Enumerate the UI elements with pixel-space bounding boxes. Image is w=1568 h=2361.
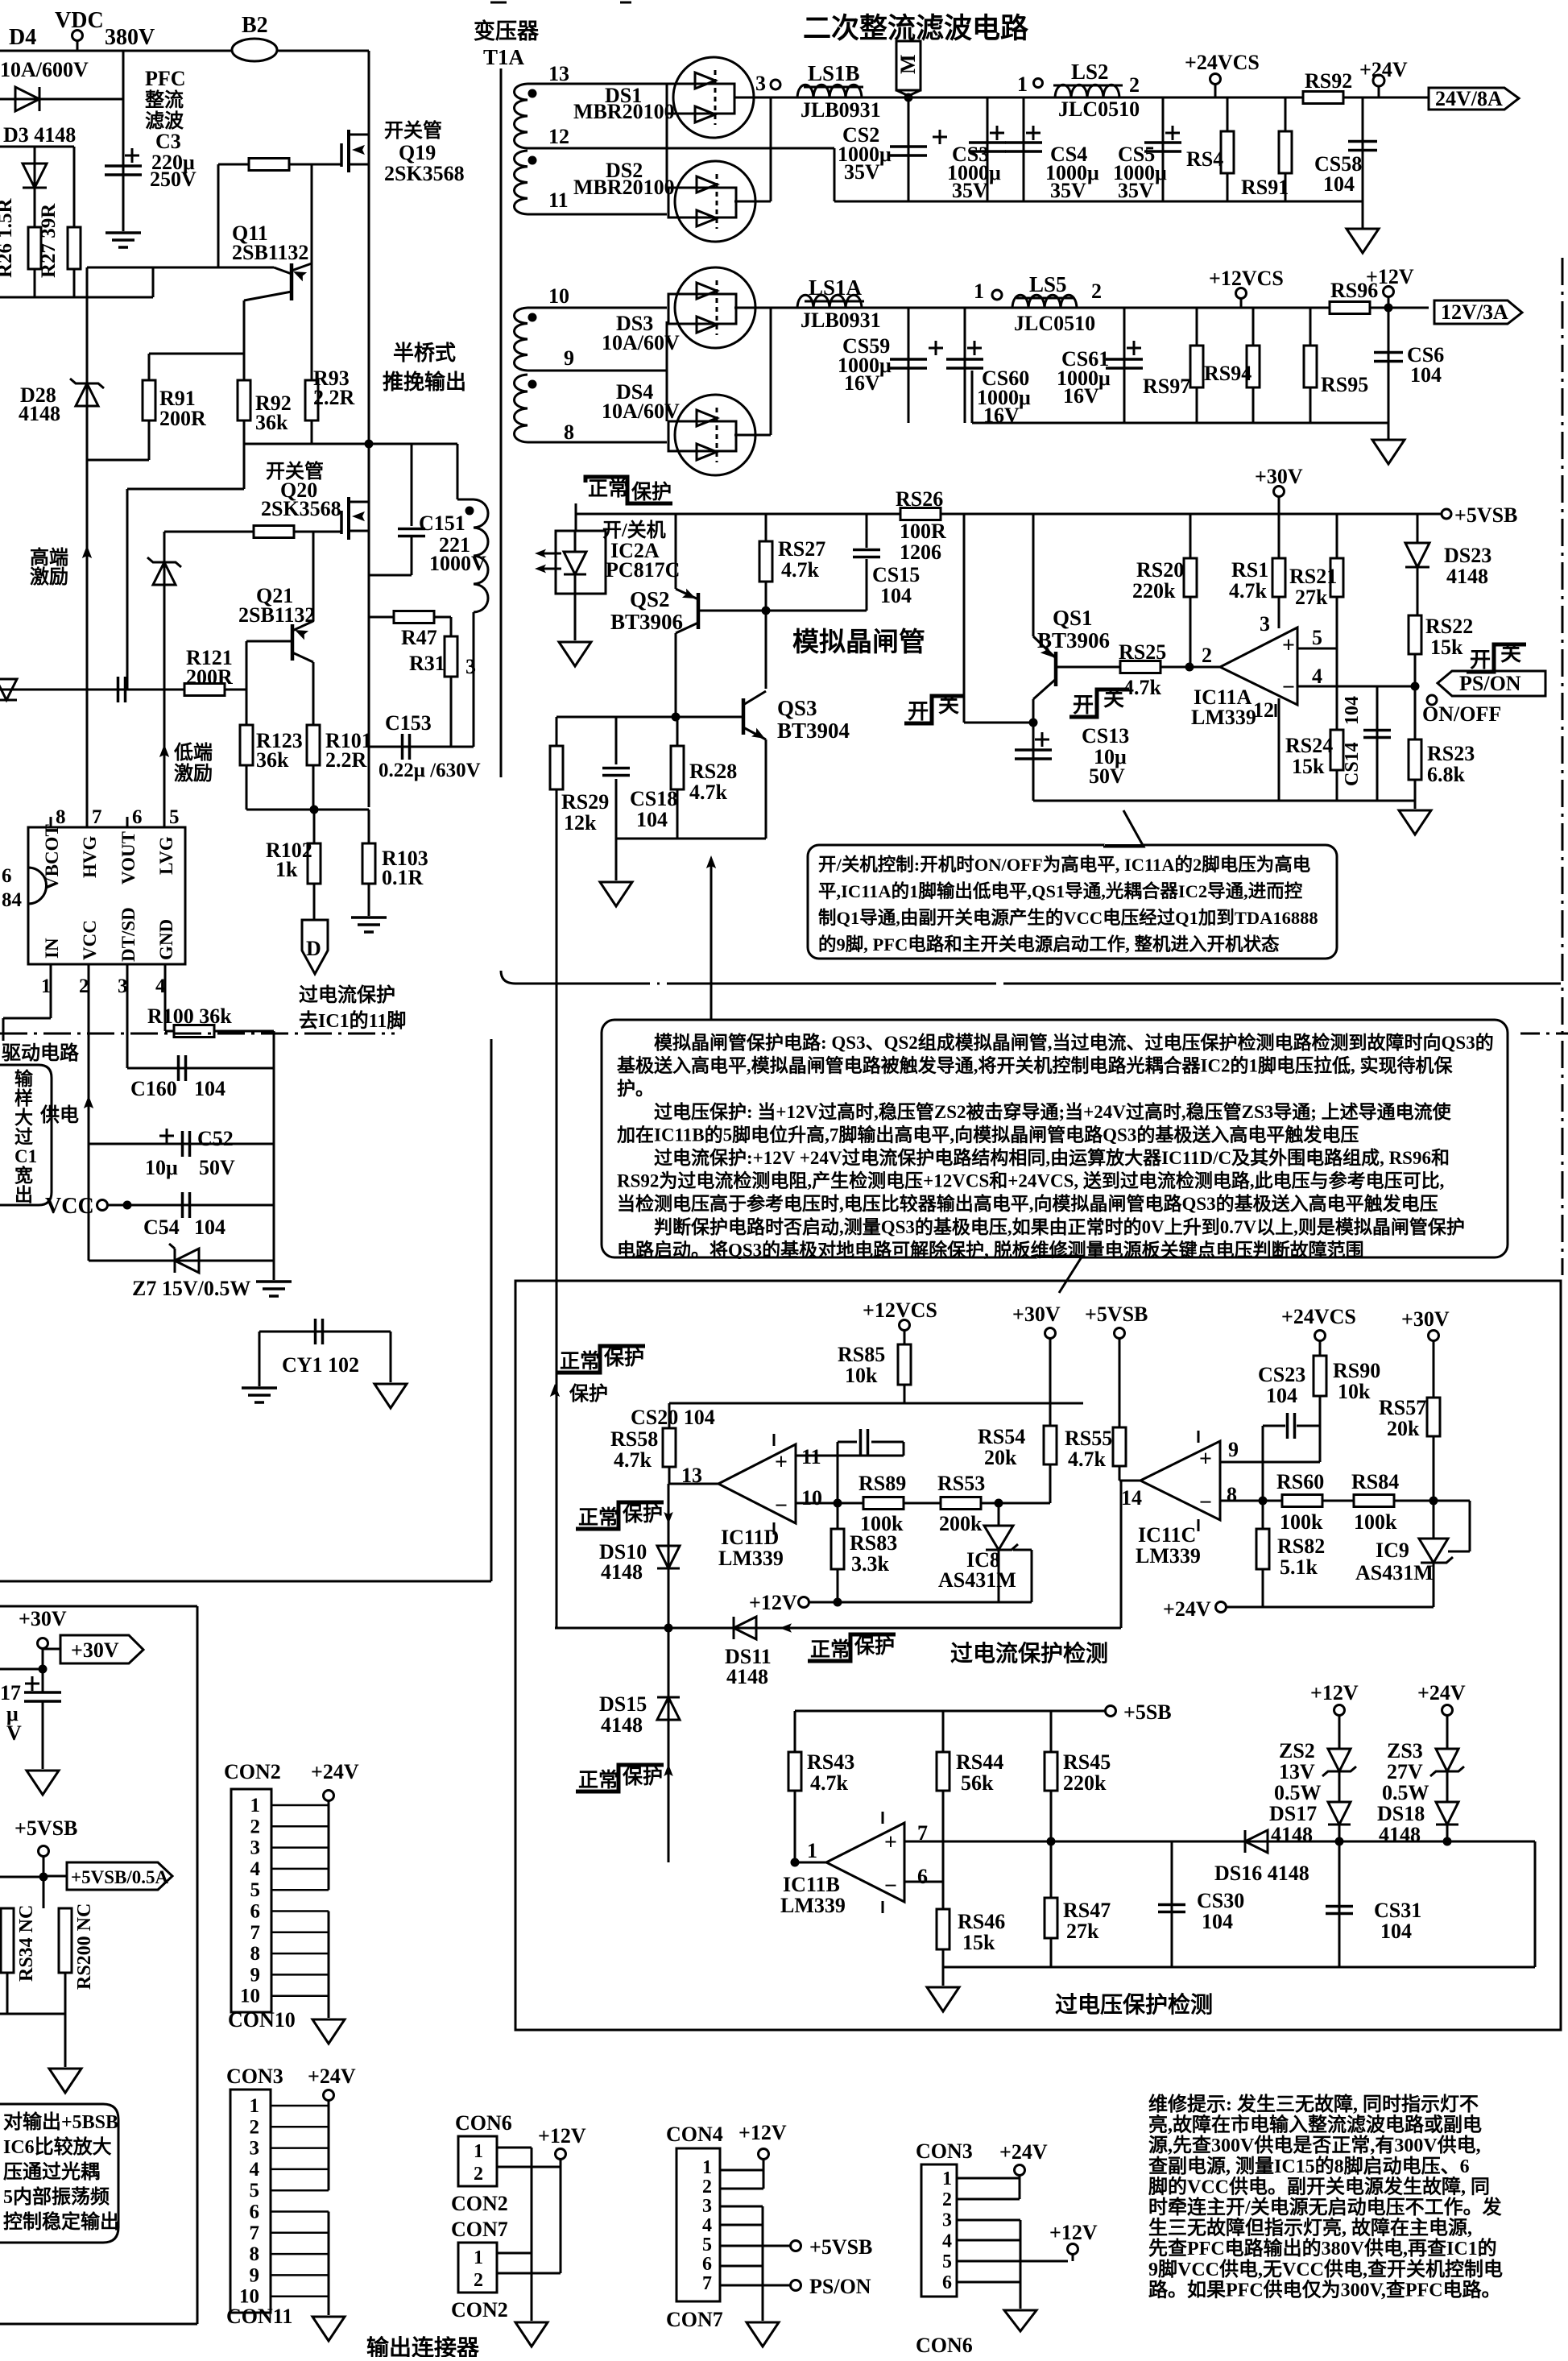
wire VCC row [108, 1204, 274, 1207]
svg-text:对输出+5BSB: 对输出+5BSB [3, 2110, 118, 2133]
wire RS29 branch [556, 717, 558, 746]
ground CON4 [747, 2322, 779, 2347]
svg-text:5: 5 [702, 2235, 712, 2255]
svg-text:C52: C52 [197, 1127, 234, 1150]
wire RS23 bottom [1414, 780, 1417, 801]
node +5VSB terminal [1442, 509, 1451, 519]
svg-text:1: 1 [1017, 72, 1028, 96]
svg-text:RS4: RS4 [1186, 147, 1223, 171]
capacitor CS5 [1144, 141, 1181, 144]
svg-text:2: 2 [1202, 644, 1212, 667]
arrow opto light 2 [538, 568, 561, 570]
svg-text:CS31: CS31 [1374, 1899, 1421, 1922]
wire RS bottoms [0, 2013, 65, 2015]
svg-text:+24V: +24V [1163, 1597, 1211, 1621]
svg-text:14: 14 [1121, 1486, 1142, 1510]
node +12VCS terminal IC11D [900, 1320, 910, 1331]
svg-text:12: 12 [1253, 698, 1274, 722]
tick IC11A bottom [1275, 704, 1277, 717]
inductor LS2 coil [1055, 85, 1119, 97]
svg-text:4.7k: 4.7k [689, 781, 728, 804]
svg-text:9: 9 [250, 2264, 260, 2286]
svg-text:Q19: Q19 [399, 141, 436, 164]
arrow 高端激励 [82, 545, 92, 558]
winding 9-8 [515, 375, 528, 442]
wire RS20 branch [1189, 514, 1192, 558]
svg-text:CON11: CON11 [226, 2305, 292, 2328]
node VCC terminal [97, 1200, 108, 1211]
wire QS1 base RS25 to IC11A pin2 [1056, 666, 1220, 669]
wire ground stub sub [64, 2014, 67, 2067]
svg-text:激励: 激励 [174, 762, 213, 785]
svg-text:输出连接器: 输出连接器 [366, 2334, 480, 2357]
resistor RS94 [1247, 346, 1260, 387]
svg-text:ON/OFF: ON/OFF [1422, 702, 1501, 726]
bootstrap wire y856 [0, 689, 164, 691]
svg-text:9: 9 [250, 1964, 261, 1986]
pin tick top 8 [50, 817, 52, 827]
wire CS3 branch [987, 97, 989, 201]
wire DS1 output [734, 97, 755, 99]
svg-text:20k: 20k [984, 1446, 1017, 1469]
wire RS29 CS18 RS28 top rail [556, 716, 676, 719]
svg-text:LM339: LM339 [780, 1894, 846, 1917]
node +12V terminal D [799, 1597, 809, 1608]
svg-text:PS/ON: PS/ON [809, 2275, 871, 2298]
svg-text:RS200 NC: RS200 NC [74, 1903, 95, 1990]
node PS/ON CON4 [791, 2280, 801, 2291]
wire CON2 +24V vertical [328, 1801, 330, 1890]
transformer T1A primary winding [457, 499, 474, 501]
resistor RS1 [1272, 558, 1285, 597]
svg-text:RS28: RS28 [689, 760, 737, 783]
node terminal 3 [771, 80, 780, 89]
wire R26 R27 bottom [34, 269, 36, 297]
svg-text:16V: 16V [1063, 384, 1099, 408]
svg-text:模拟晶闸管保护电路: QS3、QS2组成模拟晶闸管,当过电流: 模拟晶闸管保护电路: QS3、QS2组成模拟晶闸管,当过电流、过电压保护检测电路… [617, 1032, 1494, 1053]
svg-text:RS84: RS84 [1351, 1470, 1399, 1493]
wire R103 to ground [368, 884, 370, 916]
resistor RS95 [1304, 346, 1317, 387]
comparator IC11C LM339 [1140, 1441, 1220, 1520]
svg-text:2: 2 [1129, 73, 1140, 97]
capacitor bootstrap [117, 677, 120, 702]
node RS82 junction [1259, 1497, 1268, 1506]
wire pin2 column [88, 964, 90, 1261]
svg-text:RS92为过电流检测电阻,产生检测电压+12VCS和+24V: RS92为过电流检测电阻,产生检测电压+12VCS和+24VCS, 送到过电流检… [617, 1170, 1444, 1191]
ground C17 [27, 1771, 59, 1795]
transistor QS1 BT3906 [1054, 652, 1058, 686]
svg-text:CON7: CON7 [666, 2308, 723, 2331]
svg-text:15k: 15k [1292, 755, 1325, 778]
rectifier DS4 10A/60V [675, 395, 755, 475]
svg-text:样: 样 [14, 1087, 33, 1108]
svg-text:RS23: RS23 [1427, 742, 1475, 765]
wire CON2 gnd vertical [328, 1912, 330, 2019]
wire RS47 bottom [1050, 1938, 1053, 1967]
plus CS4 [1026, 132, 1041, 135]
svg-text:C153: C153 [385, 711, 432, 735]
wire ground stub B [942, 1967, 945, 1986]
block outline left bottom [490, 1039, 493, 1581]
svg-text:RS91: RS91 [1241, 176, 1289, 199]
wire pin7 [904, 1841, 1535, 1843]
svg-text:10k: 10k [1338, 1380, 1371, 1403]
svg-text:DS18: DS18 [1377, 1802, 1425, 1825]
wire RS26 down branch [963, 514, 966, 723]
svg-text:+24V: +24V [308, 2065, 356, 2088]
wire CS60 branch [964, 308, 966, 423]
svg-text:过: 过 [14, 1127, 33, 1147]
pin tick top 5 [163, 817, 166, 827]
wire DS3 lower input [666, 321, 668, 371]
capacitor C3 plates [105, 164, 142, 168]
diode DS16 [1245, 1830, 1268, 1853]
svg-text:27V: 27V [1387, 1760, 1423, 1783]
svg-text:开: 开 [1470, 648, 1491, 672]
svg-text:0.1R: 0.1R [382, 866, 424, 889]
wire terminal 10 [527, 307, 667, 309]
capacitor CS14 [1363, 729, 1391, 732]
svg-text:4148: 4148 [19, 402, 60, 425]
svg-text:4.7k: 4.7k [810, 1771, 849, 1795]
diode D4 [15, 87, 39, 111]
wire IC9 to rail [1433, 1601, 1435, 1607]
svg-text:激励: 激励 [30, 565, 68, 588]
node terminal 1 row2 [992, 290, 1002, 300]
svg-text:200k: 200k [939, 1512, 983, 1535]
svg-text:正常: 正常 [810, 1638, 850, 1661]
node +12V CON3r [1068, 2244, 1078, 2255]
resistor RS26 [900, 508, 941, 520]
svg-text:路。如果PFC供电仅为300V,查PFC电路。: 路。如果PFC供电仅为300V,查PFC电路。 [1148, 2278, 1501, 2301]
resistor R123 body [240, 725, 253, 765]
wire RS90 bottom [1319, 1396, 1322, 1462]
svg-text:CON3: CON3 [226, 2065, 283, 2088]
wire RS58 bottom [668, 1467, 671, 1484]
svg-text:RS90: RS90 [1333, 1359, 1380, 1382]
svg-text:+30V: +30V [19, 1607, 67, 1630]
svg-text:10: 10 [801, 1486, 822, 1510]
svg-text:JLB0931: JLB0931 [801, 98, 881, 122]
svg-text:维修提示: 发生三无故障, 同时指示灯不: 维修提示: 发生三无故障, 同时指示灯不 [1148, 2093, 1479, 2115]
node +24V terminal B [1442, 1705, 1453, 1716]
wire DS2 to rail [770, 97, 772, 201]
svg-text:104: 104 [1380, 1920, 1412, 1943]
wire trigger line vertical [556, 789, 558, 1628]
wire DS2 output [734, 201, 771, 203]
wire QS2 base [698, 610, 766, 612]
svg-text:7: 7 [250, 2222, 260, 2244]
callout tail up [1103, 810, 1144, 847]
node +5VSB CON4 [791, 2241, 801, 2251]
node RS45 pin7 [1047, 1837, 1056, 1846]
resistor RS46 [937, 1909, 949, 1949]
arrow 保护 up [550, 1384, 560, 1397]
capacitor C160 [177, 1055, 180, 1081]
resistor R103 [362, 843, 375, 884]
resistor RS57 [1427, 1398, 1440, 1436]
resistor RS60 [1282, 1495, 1322, 1507]
node RS57 junction [1429, 1497, 1438, 1506]
node R102 junction [310, 806, 319, 814]
wires CON2 pins [271, 1804, 329, 1807]
svg-text:4148: 4148 [1379, 1823, 1421, 1846]
ground x340 [256, 1280, 292, 1283]
wire R31 vertical [450, 617, 453, 747]
svg-text:RS95: RS95 [1321, 373, 1368, 396]
svg-text:加在IC11B的5脚电位升高,7脚输出高电平,向模拟晶闸管电: 加在IC11B的5脚电位升高,7脚输出高电平,向模拟晶闸管电路QS3的基极送入高… [616, 1124, 1359, 1145]
wire RS85 bottom [904, 1385, 906, 1403]
plus CS61 [1127, 347, 1141, 350]
svg-text:+: + [1282, 633, 1295, 658]
resistor Q20 gate [254, 526, 294, 538]
svg-text:PFC: PFC [145, 67, 186, 90]
svg-text:MBR20100: MBR20100 [573, 176, 675, 199]
wire CS59 branch [908, 308, 910, 423]
wire opto LED top [574, 531, 577, 552]
svg-text:AS431M: AS431M [938, 1568, 1016, 1592]
svg-text:开/关机控制:开机时ON/OFF为高电平, IC11A的2: 开/关机控制:开机时ON/OFF为高电平, IC11A的2脚电压为高电 [818, 854, 1311, 875]
svg-text:RS54: RS54 [978, 1425, 1025, 1448]
wire Q21 base [246, 640, 292, 643]
capacitor C151 [398, 528, 425, 531]
wire R91 bottom to pin7 column [148, 420, 151, 460]
svg-text:2: 2 [250, 2116, 260, 2138]
wire +5VSB row [0, 1876, 43, 1878]
svg-text:1: 1 [250, 1795, 261, 1816]
svg-text:C151: C151 [419, 512, 465, 535]
wire Q21 collector down [312, 662, 315, 725]
wire R103 branch [368, 810, 370, 843]
wire Z7 row [89, 1260, 274, 1262]
capacitor C151 branch [411, 444, 413, 526]
svg-text:VBCOT: VBCOT [42, 824, 62, 890]
svg-text:MBR20100: MBR20100 [573, 100, 675, 123]
svg-text:+12VCS: +12VCS [1209, 267, 1284, 290]
svg-text:3.3k: 3.3k [851, 1552, 890, 1576]
arrow opto light 1 [538, 553, 561, 555]
svg-text:生三无故障但指示灯亮, 故障在主电源,: 生三无故障但指示灯亮, 故障在主电源, [1148, 2217, 1472, 2239]
node +12V terminal [1384, 287, 1394, 297]
fuse B2 [232, 39, 277, 61]
svg-text:6: 6 [2, 865, 12, 887]
diode DS11 [734, 1617, 756, 1639]
svg-text:104: 104 [194, 1077, 225, 1100]
wire ZS3 to DS18 [1446, 1772, 1449, 1802]
wire RS83 bottom [837, 1569, 839, 1602]
svg-text:半桥式: 半桥式 [393, 342, 456, 365]
svg-text:200R: 200R [159, 407, 206, 430]
node +24V CON3 [324, 2090, 334, 2101]
svg-text:+: + [884, 1830, 897, 1855]
tick IC11D top [773, 1434, 776, 1446]
resistor RS22 [1409, 615, 1421, 654]
svg-text:+24VCS: +24VCS [1281, 1305, 1356, 1328]
svg-text:查副电源, 测量IC15的8脚启动电压、6: 查副电源, 测量IC15的8脚启动电压、6 [1148, 2155, 1470, 2177]
comparator IC11D LM339 [718, 1444, 796, 1523]
block boundary y1221 [515, 983, 640, 985]
svg-text:LS5: LS5 [1029, 272, 1067, 296]
svg-text:脚的VCC供电。副开关电源发生故障, 同: 脚的VCC供电。副开关电源发生故障, 同 [1148, 2175, 1490, 2197]
banner 24V/8A [1429, 88, 1519, 110]
svg-text:2: 2 [1091, 280, 1102, 303]
wire RS97 branch [1196, 308, 1198, 423]
comparator IC11A LM339 [1220, 628, 1297, 705]
svg-text:开: 开 [908, 700, 929, 723]
wire C52 row [89, 1143, 274, 1145]
svg-text:35V: 35V [1050, 179, 1086, 202]
node IC8 junction [995, 1499, 1003, 1508]
capacitor CY1 [314, 1319, 317, 1344]
wire pin13 output [669, 1483, 718, 1485]
svg-text:低端: 低端 [173, 742, 213, 764]
svg-text:IC11C: IC11C [1138, 1523, 1196, 1547]
svg-text:4148: 4148 [1446, 565, 1488, 588]
node +5VSB terminal sub [39, 1846, 49, 1857]
svg-text:1: 1 [702, 2157, 712, 2178]
svg-text:RS47: RS47 [1063, 1899, 1111, 1922]
svg-text:R27 39R: R27 39R [38, 203, 60, 278]
rectifier DS1 MBR20100 [673, 57, 754, 138]
svg-text:35V: 35V [1118, 179, 1154, 202]
svg-text:C1: C1 [14, 1146, 37, 1166]
ground CY1 right [374, 1384, 407, 1408]
svg-text:RS85: RS85 [838, 1343, 885, 1366]
wire D3 top [0, 146, 74, 148]
transistor QS2 BT3906 [697, 593, 701, 629]
boundary dash-dot right edge [1562, 258, 1564, 1275]
svg-text:0.22μ /630V: 0.22μ /630V [379, 760, 481, 781]
svg-text:的9脚, PFC电路和主开关电源启动工作, 整机进入开机状态: 的9脚, PFC电路和主开关电源启动工作, 整机进入开机状态 [818, 934, 1280, 955]
wire LS1B underline [804, 86, 863, 89]
svg-text:RS43: RS43 [807, 1750, 854, 1774]
capacitor CS20 [838, 1441, 857, 1444]
banner 12V/3A [1434, 300, 1522, 324]
svg-text:RS45: RS45 [1063, 1750, 1111, 1774]
wire DS10 column [668, 1484, 670, 1862]
pin tick bottom 2 [88, 964, 90, 975]
ground opto [559, 642, 591, 666]
svg-text:过电流保护: 过电流保护 [299, 984, 395, 1006]
svg-text:制Q1导通,由副开关电源产生的VCC电压经过Q1加到TDA1: 制Q1导通,由副开关电源产生的VCC电压经过Q1加到TDA16888 [818, 907, 1318, 928]
svg-text:ZS2: ZS2 [1279, 1739, 1315, 1762]
svg-text:50V: 50V [199, 1156, 235, 1179]
svg-text:LM339: LM339 [718, 1547, 784, 1570]
svg-text:RS22: RS22 [1425, 615, 1473, 638]
wire D3 vertical [34, 147, 36, 229]
node 12V junction [1384, 304, 1393, 313]
svg-text:0.5W: 0.5W [1274, 1781, 1322, 1804]
svg-text:正常: 正常 [560, 1350, 600, 1373]
svg-text:9: 9 [1228, 1438, 1239, 1461]
svg-text:过电压保护检测: 过电压保护检测 [1055, 1991, 1213, 2018]
ground under C3 [105, 231, 141, 234]
node RS20 junction [1185, 663, 1194, 672]
node +12VCS terminal [1236, 288, 1247, 299]
wire DS23 branch [1417, 514, 1419, 543]
wire RS44 branch [942, 1711, 945, 1752]
svg-text:36k: 36k [255, 411, 288, 434]
svg-text:250V: 250V [150, 168, 197, 191]
capacitor CS59 [890, 358, 927, 361]
svg-text:4148: 4148 [726, 1665, 768, 1688]
svg-text:20k: 20k [1387, 1417, 1420, 1440]
svg-text:CON6: CON6 [455, 2111, 512, 2135]
svg-text:RS53: RS53 [937, 1472, 985, 1495]
node M junction [904, 93, 913, 102]
diode DS17 [1328, 1802, 1351, 1825]
plus CS3 [990, 132, 1004, 135]
svg-text:35V: 35V [952, 179, 988, 202]
dash top edge [490, 2, 507, 4]
svg-text:开: 开 [1073, 694, 1094, 717]
callout box left cut [0, 1065, 52, 1205]
wire CS58 branch [1362, 97, 1364, 201]
capacitor CS23 plates [1286, 1413, 1289, 1439]
svg-text:压通过光耦: 压通过光耦 [3, 2161, 100, 2183]
capacitor C54 [181, 1192, 184, 1218]
wire opto to ground [574, 594, 577, 640]
tick IC11B bottom [882, 1901, 884, 1913]
transistor Q11 2SB1132 [290, 263, 294, 300]
svg-text:CON2: CON2 [451, 2192, 508, 2215]
svg-text:ZS3: ZS3 [1387, 1739, 1423, 1762]
arrow down DS10 [664, 1512, 673, 1524]
wire +30V row [0, 1668, 43, 1671]
pin tick bottom 4 [164, 964, 167, 975]
inductor LS5 coil [1012, 295, 1077, 308]
svg-text:6: 6 [702, 2254, 712, 2275]
resistor RS90 [1314, 1356, 1326, 1396]
wire LS1A underline [805, 300, 864, 303]
wire RS45 bottom [1050, 1791, 1053, 1841]
resistor R102 [308, 843, 321, 884]
svg-text:先查PFC电路输出的380V供电,再查IC1的: 先查PFC电路输出的380V供电,再查IC1的 [1148, 2237, 1497, 2260]
node QS1 collector junction [1029, 719, 1038, 727]
wire RS43 to pin1 [794, 1791, 796, 1862]
svg-text:104: 104 [1323, 172, 1355, 196]
capacitor C17 [25, 1683, 39, 1685]
svg-text:4: 4 [250, 1858, 261, 1880]
resistor RS44 [937, 1752, 949, 1791]
wire pin11 [796, 1455, 904, 1457]
svg-text:4: 4 [1312, 665, 1322, 688]
svg-text:RS26: RS26 [896, 487, 943, 511]
svg-text:+5SB: +5SB [1123, 1700, 1172, 1724]
wire LS5 underline [1016, 297, 1074, 300]
svg-text:RS24: RS24 [1285, 734, 1333, 757]
resistor RS27 [759, 541, 772, 582]
sub supply block box [0, 1605, 197, 1608]
svg-text:16V: 16V [844, 371, 880, 395]
resistor RS28 [671, 746, 684, 789]
svg-text:驱动电路: 驱动电路 [2, 1042, 80, 1064]
svg-text:−: − [884, 1874, 897, 1899]
svg-text:10k: 10k [845, 1364, 878, 1387]
svg-text:27k: 27k [1295, 586, 1328, 609]
node half-bridge midpoint [365, 440, 374, 449]
resistor RS96 [1330, 302, 1370, 314]
svg-text:RS83: RS83 [850, 1531, 897, 1555]
wire RS95 branch [1309, 308, 1312, 423]
svg-text:PC817C: PC817C [606, 558, 680, 582]
resistor R121 [184, 684, 225, 696]
svg-text:6: 6 [250, 2202, 260, 2223]
svg-text:变压器: 变压器 [474, 19, 540, 43]
pin tick bottom 3 [126, 964, 129, 975]
svg-text:2.2R: 2.2R [325, 748, 367, 772]
